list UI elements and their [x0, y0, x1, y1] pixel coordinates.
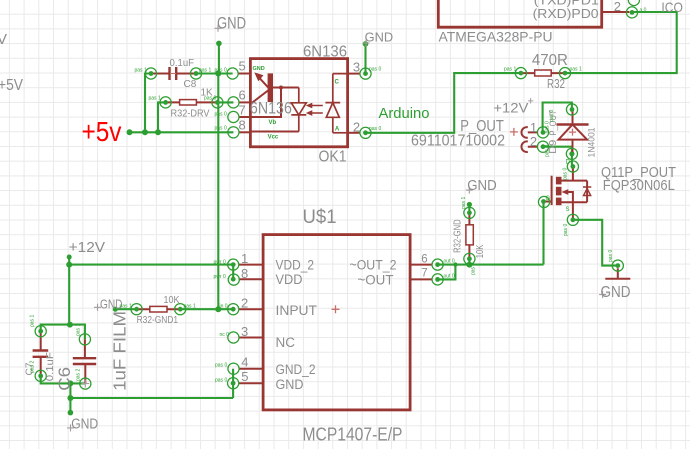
- U$1 pin 4 line: [239, 368, 264, 370]
- svg-text:NC: NC: [276, 335, 296, 350]
- svg-text:GND: GND: [601, 284, 631, 301]
- svg-text:pas 1: pas 1: [30, 315, 36, 327]
- pin dot U$1 pin5: [231, 381, 236, 386]
- OK1 LED compartment: [333, 74, 348, 133]
- svg-text:pas 0: pas 0: [204, 96, 216, 102]
- pin circle C7 top: [35, 326, 46, 337]
- capacitor C8 leads: [151, 73, 196, 75]
- svg-text:a 0: a 0: [640, 8, 647, 14]
- OK1 pin 7 line: [239, 116, 251, 118]
- optocoupler OK1 box: [250, 59, 347, 147]
- wire GND to R32-GND top: [468, 205, 470, 214]
- pin circle D9 top: [566, 104, 577, 115]
- wire U$1 gnd pins 4-5: [232, 369, 234, 398]
- U$1 pin 3 line: [239, 337, 264, 339]
- transistor Q1 gate line: [551, 176, 553, 205]
- svg-text:Vcc: Vcc: [268, 135, 279, 141]
- resistor R32-DRV leads: [166, 101, 218, 103]
- svg-text:U$1: U$1: [303, 207, 337, 228]
- pin circle R32-DRV right: [212, 97, 223, 108]
- svg-text:pas 0: pas 0: [215, 378, 227, 384]
- pin circle C6 bottom: [80, 378, 91, 389]
- wire out row to gate: [438, 264, 544, 266]
- svg-text:pas 0: pas 0: [215, 111, 227, 117]
- svg-text:GND: GND: [365, 30, 394, 44]
- pin circle U$1 pin6: [432, 259, 443, 270]
- OK1 pin 6 line: [239, 101, 251, 103]
- wire GND drop to pin 3: [364, 44, 366, 74]
- svg-text:5: 5: [241, 369, 248, 384]
- svg-text:R32: R32: [547, 76, 565, 91]
- pin circle R32-GND1 left: [131, 304, 142, 315]
- svg-text:pas 0: pas 0: [563, 224, 569, 236]
- svg-text:ATMEGA328P-PU: ATMEGA328P-PU: [439, 29, 553, 45]
- ATMEGA pin 2 line: [602, 11, 630, 13]
- svg-text:6: 6: [239, 88, 246, 103]
- diode D9 triangle: [559, 125, 588, 140]
- pin dot R32-DRV left: [163, 100, 168, 105]
- pin circle C8 left: [145, 68, 156, 79]
- wire cap bottom rail: [41, 376, 86, 384]
- wire gnd drop to GND: [69, 398, 71, 413]
- svg-text:V: V: [0, 31, 7, 48]
- svg-text:pwr 0: pwr 0: [214, 274, 226, 280]
- pin circle Q1 gate: [538, 196, 549, 207]
- OK1 light arrows: [312, 106, 323, 114]
- dot GND bottom-left symbol: [68, 410, 74, 416]
- U$1 MCP1407 box: [263, 235, 410, 410]
- wire C8 to pin 5: [196, 72, 233, 74]
- svg-text:~OUT_2: ~OUT_2: [350, 258, 397, 273]
- wire source to GND: [573, 220, 618, 266]
- capacitor C6 leads: [84, 339, 86, 383]
- svg-text:6N136: 6N136: [250, 100, 292, 118]
- svg-text:in 0: in 0: [220, 303, 228, 309]
- svg-text:GND: GND: [217, 15, 246, 33]
- svg-text:pas 1: pas 1: [199, 67, 211, 73]
- junction GND at INPUT row: [215, 306, 221, 312]
- origin cross GND right: [599, 291, 606, 298]
- wire Arduino net: [366, 73, 521, 133]
- svg-text:pas 0: pas 0: [369, 67, 381, 73]
- ground symbol right: [605, 268, 630, 279]
- svg-text:2: 2: [353, 119, 360, 134]
- pin circle R32-GND bottom: [464, 253, 475, 264]
- pin dot P_OUT 1: [541, 130, 546, 135]
- svg-text:2: 2: [614, 0, 621, 14]
- pin circle OK1 pin7: [228, 111, 239, 122]
- wire cap top rail: [41, 325, 85, 340]
- OK1 transistor emitter line: [257, 75, 269, 88]
- svg-text:1: 1: [530, 120, 537, 135]
- pin circle U$1 pin2: [228, 304, 239, 315]
- dot GND label at R32-GND1: [113, 307, 118, 312]
- svg-text:2: 2: [530, 134, 537, 149]
- svg-text:pas 0: pas 0: [545, 145, 551, 157]
- svg-text:3: 3: [241, 324, 248, 339]
- svg-text:GND_2: GND_2: [276, 362, 316, 377]
- transistor Q1 substrate line: [568, 192, 573, 202]
- pin dot U$1 pin1: [231, 262, 236, 267]
- pin dot R32-GND1 left: [134, 307, 139, 312]
- pin circle P_OUT 1: [537, 127, 548, 138]
- svg-text:7: 7: [239, 102, 246, 117]
- U$1 pin 2 line: [239, 308, 264, 310]
- svg-text:pas 2: pas 2: [30, 361, 36, 373]
- pin circle C6 top: [79, 334, 90, 345]
- transistor Q1 body diode: [583, 187, 591, 196]
- svg-text:A: A: [335, 127, 340, 133]
- dot GND label at R32-GND: [467, 202, 472, 207]
- U$1 pin 8 line: [239, 278, 264, 280]
- svg-text:Arduino: Arduino: [379, 105, 430, 122]
- junction +12V at pin1 row: [66, 262, 72, 268]
- capacitor C7 leads: [40, 331, 42, 376]
- OK1 pin 5 line: [238, 73, 250, 75]
- pin dot R32-GND1 right: [178, 307, 183, 312]
- svg-text:pas 1: pas 1: [184, 304, 196, 310]
- pin dot C8 right: [194, 71, 199, 76]
- svg-text:pas 0: pas 0: [215, 363, 227, 369]
- origin cross GND pin3: [363, 40, 370, 47]
- wire R32-GND bottom to out row: [468, 259, 470, 265]
- pin circle U$1 pin7: [432, 274, 443, 285]
- svg-text:C: C: [335, 80, 340, 86]
- pin circle 470R right: [559, 68, 570, 79]
- pin circle U$1 pin5: [228, 378, 239, 389]
- svg-text:pas 0: pas 0: [608, 250, 614, 262]
- svg-text:3: 3: [353, 60, 360, 75]
- pin circle C7 bottom: [35, 370, 46, 381]
- pin circle P_OUT 2: [537, 141, 548, 152]
- pin dot OK1 pin2: [363, 130, 368, 135]
- pin dot 470R right: [563, 71, 568, 76]
- resistor 470R body: [535, 70, 552, 76]
- svg-text:691101710002: 691101710002: [411, 133, 505, 150]
- svg-text:R32-GND: R32-GND: [452, 219, 464, 253]
- pin dot R32-GND bottom: [467, 256, 472, 261]
- wire R32-DRV to pin 6: [217, 101, 233, 103]
- junction cap bottom rail: [67, 380, 73, 386]
- pin circle Q1 drain: [567, 161, 578, 172]
- svg-text:R32-DRV: R32-DRV: [171, 108, 210, 119]
- OK1 Vb line: [251, 88, 281, 118]
- svg-text:pas 1: pas 1: [504, 67, 516, 73]
- pin circle C8 right: [190, 68, 201, 79]
- svg-text:+5V: +5V: [0, 77, 23, 94]
- wire C8 left branch: [145, 74, 151, 133]
- origin cross GND top: [215, 25, 222, 32]
- OK1 transistor base bar: [268, 73, 273, 102]
- connector P_OUT contact 2: [521, 141, 537, 152]
- transistor Q1 drain lead: [562, 167, 588, 181]
- OK1 transistor collector line: [252, 91, 268, 103]
- origin cross U$1: [332, 305, 340, 313]
- svg-text:+12V: +12V: [69, 239, 106, 256]
- pin circle OK1 pin3: [360, 68, 371, 79]
- capacitor C6 plates: [73, 358, 96, 364]
- wire R32-GND1 to INPUT: [180, 308, 233, 310]
- wire cap rail to gnd rail: [69, 383, 71, 398]
- svg-text:pwr 0: pwr 0: [214, 259, 226, 265]
- pin dot Q1 drain: [571, 164, 576, 169]
- svg-text:pas 0: pas 0: [563, 168, 569, 180]
- svg-text:10K: 10K: [474, 245, 486, 259]
- pin dot U$1 pin8: [231, 277, 236, 282]
- wire +12V to P_OUT pin 1 and D9: [543, 103, 572, 133]
- svg-text:GND: GND: [276, 377, 304, 392]
- svg-text:OK1: OK1: [319, 149, 347, 166]
- capacitor C8 plates: [170, 67, 177, 80]
- OK1 pin 2 line: [348, 132, 361, 134]
- svg-text:G: G: [546, 196, 551, 202]
- svg-text:C8: C8: [184, 79, 197, 90]
- OK1 base junction dot: [279, 86, 283, 90]
- pin dot C8 left: [149, 71, 154, 76]
- transistor Q1 gate pin line: [544, 201, 552, 203]
- wire GND vertical: [217, 74, 219, 310]
- pin circle Q1 source: [567, 214, 578, 225]
- OK1 transistor emitter arrowhead: [254, 72, 263, 81]
- svg-text:6: 6: [421, 254, 427, 266]
- svg-text:2: 2: [241, 295, 248, 310]
- resistor R32-GND1 leads: [137, 308, 181, 310]
- svg-text:5: 5: [239, 59, 246, 74]
- pin circle U$1 pin8: [228, 274, 239, 285]
- resistor R32-GND leads: [468, 213, 470, 259]
- pin circle R32-DRV left: [160, 97, 171, 108]
- junction out row R32-GND: [466, 262, 472, 268]
- pin dot R32-GND top: [467, 210, 472, 215]
- junction +5v at C8 branch: [142, 129, 148, 135]
- U$1 pin 6 line: [410, 264, 432, 266]
- U$1 pin 1 line: [239, 264, 264, 266]
- OK1 pin 3 line: [348, 73, 361, 75]
- svg-text:pas 0: pas 0: [215, 126, 227, 132]
- U$1 pin 5 line: [239, 382, 264, 384]
- svg-text:1uF FILM: 1uF FILM: [110, 311, 130, 391]
- pin dot 470R left: [519, 71, 524, 76]
- wire gnd rail: [70, 397, 233, 399]
- dot GND pin3 symbol: [363, 41, 369, 47]
- junction gnd rail: [67, 395, 73, 401]
- pin circle R32-GND1 right: [175, 304, 186, 315]
- svg-text:pas 0: pas 0: [369, 126, 381, 132]
- svg-text:pas 0: pas 0: [471, 263, 477, 275]
- svg-text:pas 1: pas 1: [76, 324, 82, 336]
- svg-text:+: +: [528, 96, 534, 108]
- transistor Q1 source lead: [562, 202, 588, 220]
- wire end dot +5v: [127, 129, 133, 135]
- capacitor C7 plates: [33, 351, 49, 357]
- wire +12V to pin 1 VDD_2: [69, 264, 233, 266]
- pin circle U$1 pin1: [228, 259, 239, 270]
- U$1 pin 7 line: [410, 278, 432, 280]
- wire GND label to R32-GND1: [115, 308, 136, 310]
- OK1 pin 8 line: [239, 131, 251, 133]
- pin dot Q1 gate: [541, 199, 546, 204]
- diode D9 cathode bar: [557, 123, 589, 125]
- connector P_OUT contact 1: [521, 127, 537, 138]
- svg-text:470R: 470R: [532, 52, 568, 69]
- OK1 Vcc line: [251, 131, 299, 133]
- pin dot OK1 pin3: [363, 71, 368, 76]
- svg-text:D: D: [566, 160, 571, 166]
- svg-text:(RXD)PD0: (RXD)PD0: [533, 6, 599, 21]
- pin circle U$1 pin3: [228, 332, 239, 343]
- pin dot P_OUT 2: [541, 144, 546, 149]
- origin cross C8: [170, 73, 176, 75]
- wire +5v rail: [130, 131, 234, 133]
- origin cross P_OUT: [510, 128, 518, 136]
- pin dot ATMEGA pin2: [630, 10, 635, 15]
- pin dot U$1 pin2: [231, 307, 236, 312]
- diode D9 leads: [572, 110, 574, 153]
- svg-text:S: S: [566, 207, 570, 213]
- svg-text:FQP30N06L: FQP30N06L: [603, 177, 675, 194]
- svg-text:ICO: ICO: [661, 0, 683, 15]
- junction +5v at R32-DRV branch: [155, 129, 161, 135]
- resistor R32-GND1 body: [150, 306, 167, 312]
- svg-text:C6: C6: [55, 367, 74, 391]
- wire +12V rail: [68, 257, 70, 325]
- junction out row pin7 link: [453, 262, 457, 266]
- svg-text:Vb: Vb: [269, 120, 277, 126]
- transistor Q1 channel bars: [556, 177, 562, 185]
- origin cross D9: [569, 129, 576, 136]
- svg-text:pas 1: pas 1: [461, 197, 467, 209]
- pin dot Q1 source: [571, 217, 576, 222]
- svg-text:7: 7: [421, 268, 427, 280]
- IC ATMEGA328P box: [438, 0, 601, 27]
- svg-text:pas 0: pas 0: [549, 110, 555, 122]
- pin circle U$1 pin4: [228, 363, 239, 374]
- svg-text:pas 1: pas 1: [570, 67, 582, 73]
- pin dot C7 bottom: [38, 374, 43, 379]
- svg-text:pas 0: pas 0: [215, 67, 227, 73]
- svg-text:GND: GND: [467, 178, 497, 194]
- svg-text:8: 8: [241, 266, 248, 281]
- pin circle OK1 pin6: [228, 97, 239, 108]
- wire R32-DRV left branch: [158, 102, 166, 132]
- resistor R32-GND body: [466, 225, 473, 245]
- transistor Q1 substrate arrowhead: [562, 189, 569, 195]
- junction cap top rail: [67, 322, 73, 328]
- pin dot U$1 pin7: [435, 277, 440, 282]
- svg-text:pas 1: pas 1: [135, 67, 147, 73]
- pin dot U$1 pin6: [435, 262, 440, 267]
- svg-text:1N4001: 1N4001: [586, 128, 597, 158]
- dot GND top symbol: [216, 41, 222, 47]
- dot +12V supply: [67, 255, 72, 260]
- svg-text:6N136: 6N136: [303, 44, 347, 61]
- wire 470R to ATMEGA pin 2: [565, 12, 677, 73]
- origin cross GND at R32-GND: [466, 187, 473, 194]
- svg-text:MCP1407-E/P: MCP1407-E/P: [303, 425, 403, 445]
- OK1 light arrowheads: [306, 103, 313, 109]
- pin dot GND right: [615, 263, 620, 268]
- svg-text:1: 1: [241, 251, 248, 266]
- pin dot D9 top: [570, 107, 575, 112]
- pin circle GND right: [612, 260, 623, 271]
- svg-text:~OUT: ~OUT: [358, 273, 394, 288]
- pin circle ATMEGA pin2: [626, 7, 637, 18]
- origin cross C6: [81, 380, 89, 388]
- svg-text:8: 8: [239, 117, 246, 132]
- svg-text:GND: GND: [71, 415, 98, 432]
- resistor 470R leads: [521, 72, 565, 74]
- svg-text:pas 1: pas 1: [120, 304, 132, 310]
- junction D9 anode: [569, 151, 574, 156]
- svg-text:VDD: VDD: [276, 272, 303, 287]
- svg-text:INPUT: INPUT: [276, 303, 318, 318]
- svg-text:pas 1: pas 1: [149, 96, 161, 102]
- wire gate drop: [542, 203, 544, 265]
- svg-text:out 0: out 0: [444, 274, 455, 280]
- wire GND top drop: [218, 43, 220, 73]
- pin circle OK1 pin2: [360, 127, 371, 138]
- pin dot C7 top: [38, 329, 43, 334]
- svg-text:4: 4: [241, 354, 248, 369]
- svg-text:pas 2: pas 2: [76, 369, 82, 381]
- pin circle 470R left: [515, 68, 526, 79]
- pin circle R32-GND top: [464, 207, 475, 218]
- origin cross GND bottom-left: [67, 424, 74, 431]
- OK1 photodiode: [291, 88, 306, 132]
- svg-text:10K: 10K: [164, 295, 180, 306]
- pin circle OK1 pin5: [227, 68, 238, 79]
- svg-text:0.1uF: 0.1uF: [170, 58, 195, 69]
- resistor R32-DRV body: [180, 100, 197, 105]
- wire pin7 link: [438, 265, 456, 280]
- OK1 transistor base to photodiode: [273, 87, 299, 89]
- wire P_OUT pin 2 to D9/drain: [543, 147, 572, 167]
- junction GND at pin5 row: [215, 71, 221, 77]
- svg-text:+5v: +5v: [82, 116, 122, 147]
- origin cross GND mid-left: [94, 304, 101, 311]
- svg-text:nc 0: nc 0: [220, 332, 230, 338]
- svg-text:R32-GND1: R32-GND1: [137, 315, 179, 326]
- pin circle ATMEGA pin1 partial: [628, 0, 639, 6]
- wire pin1 to pin8: [232, 265, 234, 280]
- svg-text:out 0: out 0: [444, 259, 455, 265]
- svg-text:VDD_2: VDD_2: [276, 258, 315, 273]
- OK1 LED diode: [325, 103, 340, 118]
- pin dot R32-DRV right: [215, 100, 220, 105]
- pin circle D9 bottom: [566, 148, 577, 159]
- svg-text:+12V: +12V: [493, 100, 528, 115]
- svg-text:GND: GND: [253, 66, 265, 72]
- transistor Q1 right line: [586, 181, 588, 203]
- pin circle OK1 pin8: [228, 127, 239, 138]
